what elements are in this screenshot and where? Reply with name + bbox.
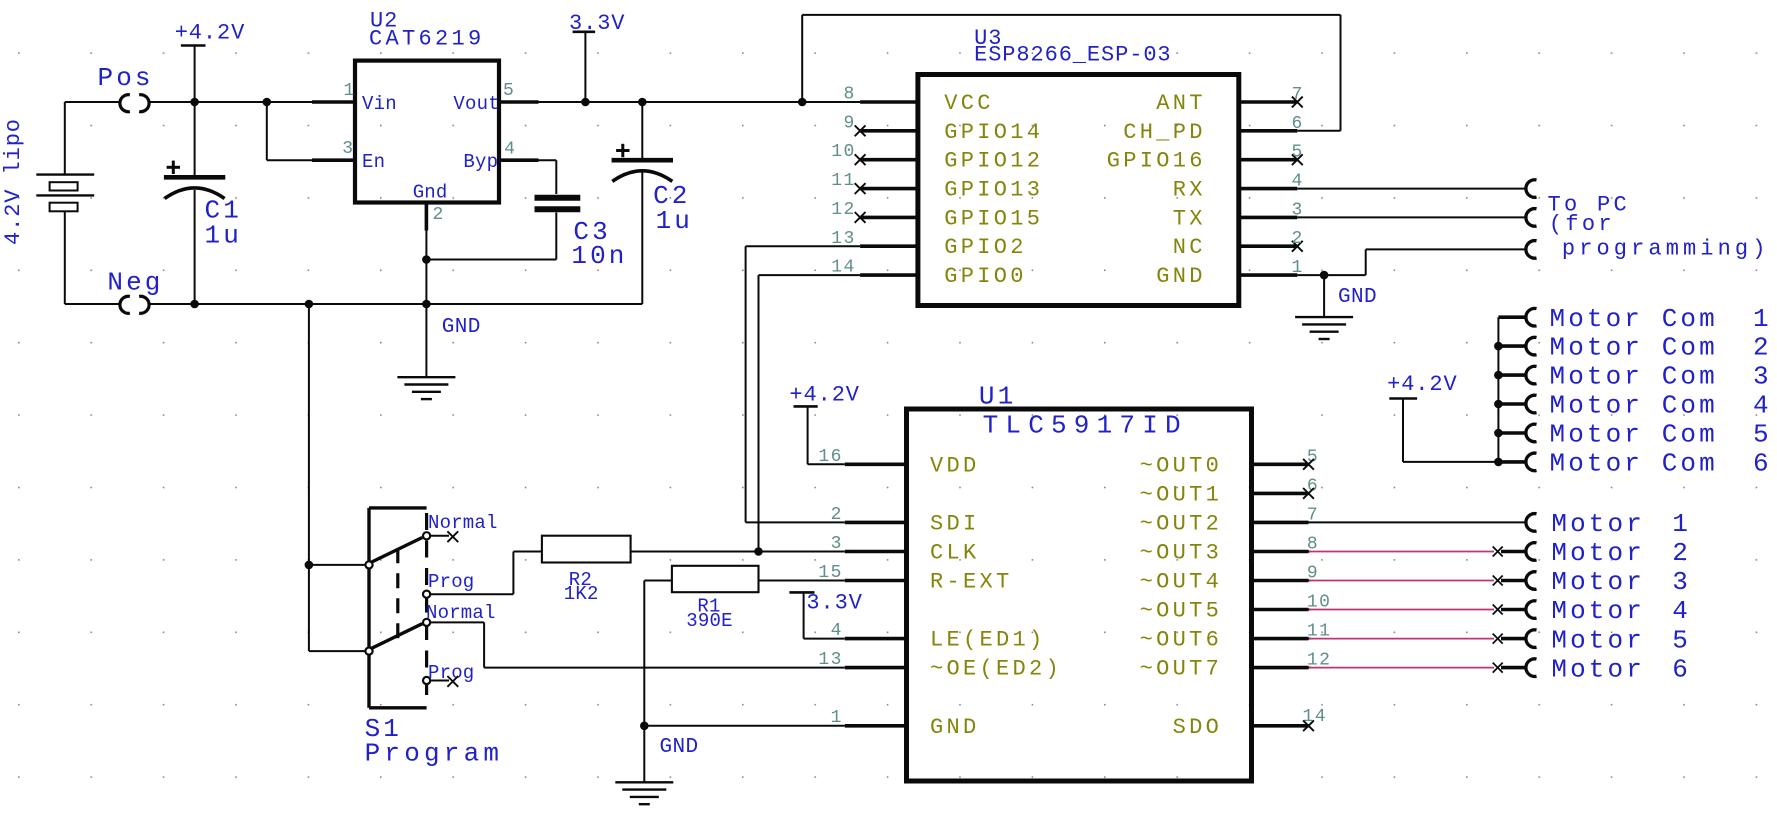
junction R1/GND [640,722,649,731]
no-connect pin 7 [1292,97,1303,108]
pin name GPIO14 [944,120,1043,145]
pin number 11 [1307,622,1331,642]
svg-text:Motor Com: Motor Com [1550,304,1718,334]
wire Motor 4 (highlight) [1309,609,1494,611]
svg-text:ESP8266_ESP-03: ESP8266_ESP-03 [974,43,1171,68]
pin name ~OUT2 [1140,511,1223,536]
no-connect pin 11 [855,183,866,194]
resistor R2 [430,536,758,595]
svg-text:1: 1 [344,81,356,101]
pin number 4 [831,621,843,641]
svg-text:VCC: VCC [944,91,994,116]
svg-text:Program: Program [365,739,504,769]
connector Motor 6 [1526,659,1537,677]
label U1 [979,382,1016,412]
pin name LE(ED1) [930,628,1046,653]
junction 3.3V tap [581,98,590,107]
pin name R-EXT [930,570,1013,595]
pin name VCC [944,91,994,116]
svg-text:6: 6 [1753,449,1772,479]
pin number 9 [1307,564,1319,584]
svg-text:~OUT0: ~OUT0 [1140,453,1223,478]
label Motor Com 3 [1550,362,1772,392]
pin number 5 [1307,447,1319,467]
svg-text:12: 12 [831,200,855,220]
junction Motor Com bus 3 [1494,371,1503,380]
svg-text:3: 3 [342,139,354,159]
svg-text:GND: GND [1338,286,1377,309]
svg-text:5: 5 [1672,625,1691,655]
wire GPIO2 to SDI [746,246,861,522]
svg-text:2: 2 [1292,229,1304,249]
svg-text:4: 4 [1672,596,1691,626]
svg-text:Motor: Motor [1551,654,1645,684]
wire VCC [802,101,860,103]
svg-text:GND: GND [660,736,699,759]
power 3.3V top [569,11,625,102]
connector Motor 5 [1526,630,1537,648]
no-connect Prog lower [447,676,458,687]
svg-text:RX: RX [1173,178,1206,203]
svg-text:~OUT5: ~OUT5 [1140,599,1223,624]
connector Motor Com 6 [1526,453,1537,471]
no-connect pin 5 [1292,154,1303,165]
svg-text:TX: TX [1173,206,1206,231]
svg-text:Byp: Byp [463,151,498,173]
pin number 1 [831,708,843,728]
power +4.2V VDD [789,382,860,464]
no-connect SDO [1303,720,1314,731]
wire battery top to Pos row [65,102,119,175]
junction Pos/+4.2V [190,98,199,107]
svg-text:~OUT4: ~OUT4 [1140,570,1223,595]
junction Neg/GND [422,300,431,309]
wire GPIO0 to CLK node [759,275,861,551]
svg-text:Normal: Normal [428,512,498,534]
wire Motor 3 stub [1501,579,1526,583]
svg-text:Prog: Prog [428,571,474,593]
connector Motor 1 [1526,514,1537,532]
svg-text:En: En [362,151,385,173]
svg-text:Motor Com: Motor Com [1550,449,1718,479]
pin name ~OUT5 [1140,599,1223,624]
svg-text:Motor: Motor [1551,596,1645,626]
svg-text:LE(ED1): LE(ED1) [930,628,1046,653]
pin number 5 [1292,143,1304,163]
label Motor 6 [1551,654,1691,684]
connector Neg [120,296,149,313]
connector Motor 4 [1526,601,1537,619]
svg-text:Motor: Motor [1551,625,1645,655]
pin number 3 [1292,200,1304,220]
junction Neg/S1 [305,300,314,309]
pin name En [362,151,385,173]
svg-text:Vout: Vout [453,93,499,115]
wire GND bottom [644,725,845,727]
wire Neg row [150,303,643,305]
label Neg [107,268,163,298]
label C2 [653,181,693,236]
label Motor 1 [1551,509,1691,539]
junction VCC loop [798,98,807,107]
wire Vout row [539,101,861,103]
no-connect pin 10 [855,154,866,165]
svg-text:Pos: Pos [98,63,154,93]
junction Motor Com bus 2 [1494,342,1503,351]
svg-text:CH_PD: CH_PD [1123,120,1206,145]
svg-text:2: 2 [1672,538,1691,568]
no-connect OUT1 [1303,488,1314,499]
svg-text:Gnd: Gnd [413,182,448,204]
svg-text:ANT: ANT [1156,91,1206,116]
svg-text:Motor: Motor [1551,567,1645,597]
svg-text:GPIO0: GPIO0 [944,264,1027,289]
svg-text:GPIO2: GPIO2 [944,235,1027,260]
pin name ~OUT1 [1140,482,1223,507]
label GND bottom [660,736,699,759]
connector To-PC RX [1526,180,1537,198]
pin name ~OUT7 [1140,657,1223,682]
pin name GPIO15 [944,206,1043,231]
pin number 4 [1292,172,1304,192]
switch S1 [365,508,430,708]
wire Motor 5 stub [1501,637,1526,641]
junction Motor Com bus 4 [1494,400,1503,409]
pin name ~OUT6 [1140,628,1223,653]
ground symbol bottom [615,782,673,804]
no-connect Motor 4 [1493,605,1503,615]
ground symbol mid [397,377,455,399]
power +4.2V motor [1387,372,1498,462]
pin name SDI [930,511,980,536]
svg-text:NC: NC [1173,235,1206,260]
junction U3 GND [1320,271,1329,280]
pin name ~OUT4 [1140,570,1223,595]
svg-text:programming): programming) [1562,236,1770,261]
pin number 2 [433,205,445,225]
label C1 [205,196,242,251]
wire OUT3 stub tail [1309,551,1312,553]
label ESP8266_ESP-03 [974,43,1171,68]
pin name ~OUT3 [1140,541,1223,566]
label C3 [571,217,627,271]
svg-text:~OUT7: ~OUT7 [1140,657,1223,682]
pin number 8 [1307,535,1319,555]
pin name NC [1173,235,1206,260]
svg-text:GPIO15: GPIO15 [944,206,1043,231]
pin number 2 [1292,229,1304,249]
svg-text:~OUT1: ~OUT1 [1140,482,1223,507]
wire OUT7 stub tail [1309,667,1312,669]
connector Motor Com 1 [1526,308,1537,326]
label CAT6219 [369,27,485,52]
wire battery bottom to Neg row [65,211,119,304]
pin name SDO [1173,715,1223,740]
wire Motor 2 (highlight) [1309,551,1494,553]
label U3 [974,26,1002,51]
op-amp U2 CAT6219 body and pins [267,61,539,231]
no-connect pin 2 [1292,241,1303,252]
label U2 [370,9,398,34]
svg-text:Motor Com: Motor Com [1550,362,1718,392]
no-connect Motor 5 [1493,634,1503,644]
IC U1 TLC5917ID body and pins [845,409,1309,781]
IC U3 ESP8266_ESP-03 body and pins [860,75,1297,306]
no-connect pin 9 [855,125,866,136]
junction Motor Com bus 6 [1494,458,1503,467]
pin name CLK [930,541,980,566]
pin number 7 [1307,505,1319,525]
svg-text:GPIO12: GPIO12 [944,149,1043,174]
no-connect Normal upper [447,531,458,542]
junction CLK/R2 [754,547,763,556]
wire RX [1297,188,1525,190]
wire OUT6 stub tail [1309,638,1312,640]
svg-text:TLC5917ID: TLC5917ID [983,411,1188,441]
label Motor Com 1 [1550,304,1772,334]
wire S1 feed [309,304,366,651]
label Normal upper [428,512,498,534]
svg-text:GPIO13: GPIO13 [944,178,1043,203]
power +4.2V top-left [175,21,246,103]
no-connect pin 12 [855,212,866,223]
label Motor 3 [1551,567,1691,597]
svg-text:~OUT6: ~OUT6 [1140,628,1223,653]
svg-text:Motor Com: Motor Com [1550,333,1718,363]
svg-text:10n: 10n [571,241,627,271]
capacitor C3 [426,160,580,259]
pin name TX [1173,206,1206,231]
svg-text:Neg: Neg [107,268,163,298]
svg-text:~OE(ED2): ~OE(ED2) [930,657,1062,682]
svg-text:1: 1 [1753,304,1772,334]
pin number 1 [1292,258,1304,278]
pin number 16 [818,447,842,467]
pin number 14 [831,258,855,278]
svg-text:+4.2V: +4.2V [175,21,246,46]
capacitor C1 [164,102,225,304]
wire Motor 2 stub [1501,550,1526,554]
svg-text:GND: GND [442,316,481,339]
wire Motor 1 [1309,521,1526,523]
svg-text:2: 2 [433,205,445,225]
svg-text:SDO: SDO [1173,715,1223,740]
pin name GPIO12 [944,149,1043,174]
pin number 9 [844,113,856,133]
svg-text:4: 4 [1753,391,1772,421]
svg-text:CLK: CLK [930,541,980,566]
pin name Gnd [413,182,448,204]
label programming) [1562,236,1770,261]
svg-text:Normal: Normal [426,602,496,624]
wire GND symbol drop [1323,275,1325,317]
svg-text:9: 9 [844,113,856,133]
svg-text:2: 2 [831,505,843,525]
label R2 [564,569,599,605]
pin name Vin [362,93,397,115]
label GND mid [442,316,481,339]
no-connect Motor 2 [1493,547,1503,557]
wire TX [1297,216,1525,218]
pin name ~OUT0 [1140,453,1223,478]
wire Motor 5 (highlight) [1309,638,1494,640]
resistor R1 [644,566,845,726]
capacitor C2 [612,102,673,304]
svg-text:1u: 1u [656,206,693,236]
label Motor 2 [1551,538,1691,568]
power 3.3V LE [789,591,862,639]
junction C3/gnd [422,255,431,264]
pin number 11 [831,171,855,191]
svg-text:11: 11 [831,171,855,191]
svg-text:VDD: VDD [930,453,980,478]
svg-text:4.2V lipo: 4.2V lipo [1,118,26,245]
svg-text:3.3V: 3.3V [806,591,862,616]
label Pos [98,63,154,93]
pin number 1 [344,81,356,101]
junction Motor Com bus 5 [1494,429,1503,438]
svg-text:1: 1 [1672,509,1691,539]
pin name GPIO16 [1107,149,1206,174]
pin name Byp [463,151,498,173]
label Prog upper [428,571,474,593]
connector Motor 2 [1526,543,1537,561]
pin number 13 [818,650,842,670]
svg-text:7: 7 [1292,85,1304,105]
svg-text:+4.2V: +4.2V [789,382,860,407]
label Motor Com 2 [1550,333,1772,363]
wire OE [430,622,845,667]
wire GND bottom drop [643,726,645,783]
svg-text:~OUT2: ~OUT2 [1140,511,1223,536]
svg-text:4: 4 [504,140,516,160]
svg-text:3: 3 [1672,567,1691,597]
label Prog lower [428,662,474,684]
label S1 [365,714,402,744]
svg-text:+4.2V: +4.2V [1387,372,1458,397]
svg-text:1u: 1u [205,221,242,251]
pin name GND [930,715,980,740]
junction Neg/C1 [190,300,199,309]
connector Motor Com 3 [1526,366,1537,384]
pin number 5 [503,81,515,101]
connector Motor Com 2 [1526,337,1537,355]
svg-text:390E: 390E [686,610,732,632]
wire Prog lower stub [430,680,449,682]
pin name ~OE(ED2) [930,657,1062,682]
wire OUT5 stub tail [1309,609,1312,611]
junction C2 tap [638,98,647,107]
pin name CH_PD [1123,120,1206,145]
label 4.2V lipo [1,118,26,245]
connector To-PC TX [1526,209,1537,227]
junction S1 feed [305,561,314,570]
label Motor Com 6 [1550,449,1772,479]
connector Pos [120,95,149,112]
svg-text:U1: U1 [979,382,1016,412]
pin number 3 [831,534,843,554]
svg-text:SDI: SDI [930,511,980,536]
label Motor 5 [1551,625,1691,655]
wire Motor 4 stub [1501,608,1526,612]
svg-text:GPIO16: GPIO16 [1107,149,1206,174]
label (for [1549,212,1615,237]
no-connect Motor 6 [1493,663,1503,673]
svg-text:10: 10 [831,142,855,162]
pin number 2 [831,505,843,525]
pin name GPIO2 [944,235,1027,260]
svg-text:GND: GND [930,715,980,740]
svg-text:R-EXT: R-EXT [930,570,1013,595]
pin number 7 [1292,85,1304,105]
svg-text:5: 5 [503,81,515,101]
ground symbol right [1295,317,1353,339]
connector To-PC third [1526,241,1537,259]
svg-text:1K2: 1K2 [564,583,599,605]
svg-text:Motor Com: Motor Com [1550,391,1718,421]
label GND right [1338,286,1377,309]
pin number 14 [1303,707,1327,727]
svg-text:5: 5 [1292,143,1304,163]
svg-text:3: 3 [1753,362,1772,392]
svg-text:Motor Com: Motor Com [1550,420,1718,450]
svg-text:Motor: Motor [1551,509,1645,539]
pin number 6 [1292,114,1304,134]
pin name VDD [930,453,980,478]
svg-text:5: 5 [1753,420,1772,450]
label To PC [1548,192,1631,217]
label Motor Com 4 [1550,391,1772,421]
pin name GPIO13 [944,178,1043,203]
label Normal lower [426,602,496,624]
wire Motor Com bus [1498,317,1526,462]
label TLC5917ID [983,411,1188,441]
pin number 4 [504,140,516,160]
pin name ANT [1156,91,1206,116]
svg-text:CAT6219: CAT6219 [369,27,485,52]
connector Motor Com 5 [1526,424,1537,442]
pin name Vout [453,93,499,115]
wire Motor 6 (highlight) [1309,667,1494,669]
wire Motor 3 (highlight) [1309,580,1494,582]
svg-text:GPIO14: GPIO14 [944,120,1043,145]
pin number 3 [342,139,354,159]
no-connect Motor 3 [1493,576,1503,586]
wire U2 Gnd down [425,231,427,378]
wire Normal upper stub [430,535,449,537]
pin name RX [1173,178,1206,203]
svg-text:~OUT3: ~OUT3 [1140,541,1223,566]
connector Motor Com 4 [1526,395,1537,413]
wire U3 GND [1297,249,1525,275]
svg-text:GND: GND [1156,264,1206,289]
wire Pos row [150,101,312,103]
svg-text:Motor: Motor [1551,538,1645,568]
pin name GND [1156,264,1206,289]
label Motor 4 [1551,596,1691,626]
pin number 12 [1307,651,1331,671]
junction Pos/En branch [263,98,272,107]
wire OUT4 stub tail [1309,580,1312,582]
pin number 13 [831,229,855,249]
svg-text:2: 2 [1753,333,1772,363]
label Motor Com 5 [1550,420,1772,450]
wire VCC top loop [802,15,1340,131]
pin number 6 [1307,476,1319,496]
svg-text:6: 6 [1672,654,1691,684]
svg-text:(for: (for [1549,212,1615,237]
label R1 [686,596,732,633]
